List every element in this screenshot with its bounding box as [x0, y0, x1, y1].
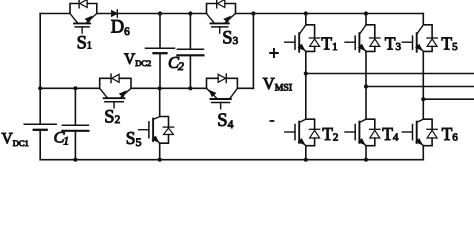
transistor T1	[285, 25, 320, 52]
label T6	[442, 124, 459, 144]
wire phase B output	[366, 86, 474, 88]
label S1	[77, 34, 92, 54]
node phase A junction	[304, 71, 308, 75]
label T1	[321, 34, 337, 54]
wire leg B upper stub	[365, 14, 367, 25]
label plus	[269, 44, 279, 64]
node bottom-S5 junction	[158, 158, 162, 162]
node top-legA junction	[304, 11, 308, 15]
wire top rail D6 to S3 segment	[119, 13, 207, 15]
wire leg A upper stub	[305, 14, 307, 25]
node phase B junction	[364, 84, 368, 88]
label T5	[441, 34, 458, 54]
node bottom-C1 junction	[73, 158, 77, 162]
label S3	[222, 28, 238, 48]
node top-legB junction	[364, 11, 368, 15]
label T3	[385, 34, 402, 54]
transistor T5	[402, 25, 437, 52]
node mid-C1 junction	[73, 86, 77, 90]
wire top rail left segment	[40, 13, 70, 15]
wire C1 branch lower	[74, 131, 76, 160]
label T2	[322, 124, 338, 144]
wire C2 branch upper	[189, 14, 191, 50]
node mid-left junction	[38, 86, 42, 90]
transistor T4	[345, 119, 380, 146]
wire C1 branch upper	[74, 88, 76, 125]
node top-C2 junction	[188, 11, 192, 15]
wire leg A mid	[305, 51, 307, 119]
wire left vertical lower	[39, 130, 41, 160]
transistor T6	[402, 119, 437, 146]
wire phase A output	[306, 73, 474, 75]
node phase C junction	[421, 97, 425, 101]
wire leg C mid	[422, 51, 424, 119]
switch S1	[70, 0, 97, 33]
wire leg C lower	[422, 146, 424, 160]
node mid-S5 junction	[158, 86, 162, 90]
wire phase C output	[423, 98, 474, 100]
wire leg B lower	[365, 146, 367, 160]
wire connector vertical	[252, 14, 254, 89]
battery VDC1	[24, 124, 56, 130]
node bottom-legB junction	[364, 158, 368, 162]
wire VDC2 branch lower	[159, 53, 161, 88]
wire leg A lower	[305, 146, 307, 160]
transistor T2	[285, 119, 320, 146]
wire top rail right segment	[236, 13, 424, 15]
wire VDC2 branch upper	[159, 14, 161, 49]
transistor T3	[345, 25, 380, 52]
switch S3	[207, 0, 236, 33]
wire bottom rail	[40, 159, 423, 161]
switch S4	[207, 74, 238, 109]
wire left vertical	[39, 14, 41, 125]
label D6	[111, 18, 130, 39]
node top-connector junction	[251, 11, 255, 15]
wire middle left segment	[40, 87, 99, 89]
node bottom-legA junction	[304, 158, 308, 162]
label VMSI	[263, 74, 292, 93]
label VDC2	[124, 51, 151, 68]
capacitor C2	[177, 49, 203, 55]
wire middle center segment	[131, 87, 207, 89]
label VDC1	[2, 131, 29, 148]
diode D6	[112, 10, 118, 17]
label S5	[126, 128, 142, 149]
node top-VDC2 junction	[158, 11, 162, 15]
label C2	[168, 53, 184, 73]
battery VDC2	[146, 48, 175, 53]
svg-text:+: +	[269, 44, 279, 64]
wire leg B mid	[365, 51, 367, 119]
wire C2 branch lower	[189, 55, 191, 88]
label S2	[104, 107, 120, 127]
wire leg C upper stub	[422, 14, 424, 25]
label S4	[217, 111, 233, 131]
switch S5	[139, 117, 174, 144]
wire S5 branch lower	[159, 143, 161, 160]
wire S5 branch upper	[159, 88, 161, 116]
switch S2	[100, 74, 131, 108]
wire top rail S1-D6 segment	[97, 13, 112, 15]
capacitor C1	[62, 125, 88, 131]
label minus	[270, 120, 275, 122]
node mid-C2 junction	[188, 86, 192, 90]
wire middle right segment	[237, 87, 253, 89]
label T4	[382, 124, 399, 144]
label C1	[54, 127, 70, 147]
